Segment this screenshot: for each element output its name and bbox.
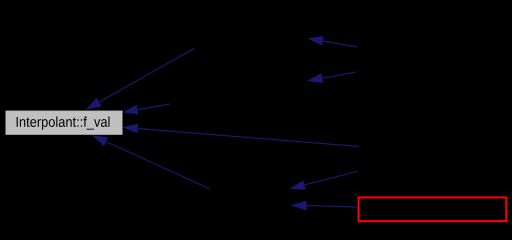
wire E4 (92, 135, 210, 189)
wire E7 (290, 171, 359, 190)
node Interpolant::f_val (6, 111, 123, 135)
wire E8 (291, 201, 357, 211)
wire E5 (308, 36, 358, 47)
node (red, truncated) (359, 197, 507, 221)
wire E6 (307, 72, 356, 83)
wire E2 (122, 104, 170, 115)
wire E1 (86, 49, 195, 110)
wire E3 (122, 124, 359, 147)
